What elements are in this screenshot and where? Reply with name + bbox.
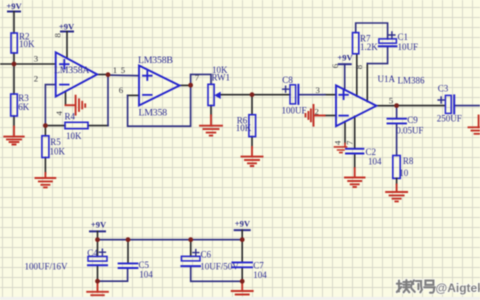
power +9V P1 (top-left) — [6, 1, 22, 12]
wire op-amp2 feedback loop — [128, 85, 191, 126]
ground under C2 — [345, 168, 365, 187]
resistor R6 10K — [236, 115, 256, 137]
resistor R5 10K — [42, 136, 66, 158]
svg-text:3: 3 — [34, 54, 39, 64]
wire +9V top rail — [98, 239, 243, 241]
svg-text:10K: 10K — [19, 39, 35, 49]
svg-text:LM358B: LM358B — [138, 55, 173, 66]
ground under C7 — [232, 281, 253, 294]
wire R6 to ground — [251, 137, 253, 147]
svg-text:C8: C8 — [282, 75, 293, 85]
op-amp U?B LM358B — [139, 66, 180, 106]
capacitor C7 104 — [232, 260, 267, 280]
wire LM386 pin 7 to C2 — [354, 116, 356, 148]
svg-text:LM386: LM386 — [398, 76, 426, 86]
resistor R2 10K — [11, 32, 35, 54]
wire op-amp2 output stub — [180, 84, 191, 86]
wire C3 to right edge — [456, 105, 480, 107]
wire op-amp1 output stub — [97, 74, 108, 76]
capacitor C2 104 — [346, 147, 382, 167]
svg-text:C2: C2 — [366, 147, 377, 157]
node C junction (wiper/R6/C8) — [250, 92, 255, 97]
resistor R4 10K (horizontal) — [65, 112, 89, 141]
wire R7 to LM386 pin 8 — [356, 54, 358, 96]
capacitor C5 104 — [119, 260, 154, 280]
svg-text:LM358: LM358 — [139, 108, 168, 119]
ground under R6 — [242, 147, 263, 166]
node D junction (LM386 out) — [394, 103, 399, 108]
capacitor C6 10UF/50V (polarized, vertical) — [181, 249, 239, 271]
wire C9 to R8 — [396, 124, 398, 156]
wire bottom ground rail left — [98, 269, 128, 281]
capacitor C9 0.05UF — [388, 115, 424, 136]
svg-text:5: 5 — [121, 65, 126, 75]
svg-text:3: 3 — [316, 85, 321, 95]
wire node B to R5 — [44, 126, 46, 136]
svg-text:8: 8 — [354, 64, 364, 69]
wire P1 to R2 — [13, 12, 15, 34]
svg-text:5: 5 — [389, 96, 394, 106]
wire node C to R6 — [251, 95, 253, 115]
svg-text:R5: R5 — [50, 137, 61, 147]
wire LM386 pin 2 stub — [325, 115, 336, 117]
svg-text:10K: 10K — [50, 147, 66, 157]
svg-text:7: 7 — [195, 72, 200, 82]
svg-text:104: 104 — [368, 157, 382, 167]
power +9V P3 (LM386 pin6) — [337, 53, 353, 65]
ground at LM386 pin 4 (small) — [335, 144, 347, 153]
ground under C4 — [87, 281, 108, 295]
ground at right edge (partial) — [469, 116, 480, 134]
svg-text:C9: C9 — [407, 115, 418, 125]
capacitor C4 100UF/16V (polarized, vertical) — [25, 248, 108, 271]
wire op-amp2 out to RW1 top — [191, 74, 211, 85]
svg-text:100UF: 100UF — [282, 106, 307, 116]
svg-text:100UF/16V: 100UF/16V — [25, 261, 69, 271]
svg-text:4: 4 — [332, 140, 342, 145]
capacitor C3 250UF (polarized, horizontal) — [437, 84, 462, 124]
svg-text:4: 4 — [54, 111, 64, 116]
wire P4 stem — [97, 231, 99, 239]
wire C8 to LM386 pin 3 — [325, 94, 336, 96]
watermark 搜狐号@Aigtek — [397, 280, 480, 295]
ground rail junction at C7 — [240, 279, 245, 284]
wire C4 to ground node — [97, 266, 99, 281]
ground under R3 — [4, 127, 23, 145]
ground under RW1 — [200, 115, 222, 135]
svg-text:U1A: U1A — [378, 74, 396, 84]
power +9V P5 (bottom rail right) — [235, 219, 251, 231]
wire rail to C6 — [190, 240, 192, 257]
rail junction at P4 — [95, 237, 100, 242]
svg-text:@Aigtek: @Aigtek — [436, 281, 480, 295]
wire C7 to ground node — [241, 267, 243, 281]
svg-text:+9V: +9V — [59, 22, 75, 32]
svg-text:+9V: +9V — [91, 219, 107, 229]
wire R3 to ground — [13, 116, 15, 127]
svg-text:10: 10 — [399, 168, 409, 178]
wire P2 to op-amp1 pin 8 — [66, 32, 68, 58]
wire node D to C9 — [396, 106, 398, 119]
svg-text:+9V: +9V — [337, 53, 353, 63]
power +9V P4 (bottom rail left) — [90, 219, 107, 231]
wire node A to R3 — [13, 64, 15, 94]
capacitor C8 100UF (polarized, horizontal) — [282, 75, 307, 116]
svg-text:0.05UF: 0.05UF — [396, 126, 423, 136]
wire P5 stem — [241, 230, 243, 240]
wire C8 right side — [299, 94, 325, 96]
resistor R7 1.2K — [353, 33, 379, 54]
wire node B to R4 — [45, 125, 65, 127]
wire P3 stem to LM386 pin6 — [344, 64, 346, 90]
svg-text:250UF: 250UF — [437, 114, 462, 124]
svg-text:1.2K: 1.2K — [360, 42, 378, 52]
power +9V P2 (op-amp1 pin8) — [59, 22, 75, 32]
svg-text:C6: C6 — [201, 249, 212, 259]
resistor R8 10 — [393, 156, 414, 179]
svg-text:104: 104 — [139, 270, 153, 280]
svg-text:LM358A: LM358A — [54, 65, 89, 76]
svg-text:R8: R8 — [403, 156, 414, 166]
capacitor C1 10UF (polarized, vertical) — [379, 32, 418, 52]
svg-text:+9V: +9V — [6, 1, 22, 11]
wire R5 to ground — [44, 158, 46, 174]
svg-text:C3: C3 — [438, 84, 449, 94]
wire C2 to ground — [354, 154, 356, 168]
rail junction at C5 — [126, 237, 131, 242]
wire node D to C3 — [397, 105, 446, 107]
node A junction (R2/R3/pin3) — [12, 62, 17, 67]
svg-text:C4: C4 — [87, 248, 98, 258]
rail junction at C6 — [188, 237, 193, 242]
resistor R3 6K — [11, 93, 30, 116]
wire C1 bottom to pin1 column — [367, 47, 387, 64]
svg-text:104: 104 — [253, 270, 267, 280]
svg-text:R4: R4 — [65, 112, 76, 122]
wire R2 to node A — [13, 53, 15, 64]
wire feedback column to R4 row — [107, 75, 109, 126]
svg-text:2: 2 — [34, 74, 38, 84]
ground under R5 — [36, 173, 56, 187]
wire op-amp1 pin2 feedback branch — [45, 85, 55, 126]
svg-text:10K: 10K — [236, 123, 252, 133]
svg-text:6K: 6K — [18, 102, 30, 112]
ground under R8 — [396, 178, 398, 184]
wire RW1 bottom to ground — [210, 106, 212, 116]
ground rail junction at C4 — [95, 279, 100, 284]
node junction op-amp1 output — [106, 72, 111, 77]
node B junction (R4/R5/pin2) — [43, 123, 48, 128]
svg-text:7: 7 — [345, 140, 355, 145]
op-amp U?A LM358A — [56, 52, 97, 96]
potentiometer RW1 10K — [208, 65, 230, 105]
wire LM386 pin 4 down — [344, 122, 346, 144]
svg-text:RW1: RW1 — [212, 72, 231, 82]
wire rail to C4 — [97, 240, 99, 257]
wire input row pin3 — [0, 63, 56, 65]
svg-text:+9V: +9V — [235, 219, 251, 229]
wire rail to C7 — [241, 240, 243, 262]
wire op-amp2 pin 6 stub — [128, 94, 139, 96]
wire op-amp1 out to op-amp2 pin5 — [108, 74, 139, 77]
wire RW1 wiper to C8 — [221, 94, 290, 96]
wire C1 to LM386 pin 1 — [366, 64, 368, 102]
svg-text:C7: C7 — [253, 260, 264, 270]
wire bottom ground rail right — [191, 267, 243, 281]
bottom edge strip — [0, 297, 480, 300]
wire R7 C1 top loop — [356, 23, 388, 39]
svg-text:6: 6 — [330, 63, 340, 68]
svg-text:10K: 10K — [66, 131, 82, 141]
ground at LM386 pin 2 (rotated left) — [306, 105, 325, 126]
ground at op-amp1 pin 4 (rotated right) — [66, 96, 86, 115]
op-amp U1A LM386 — [336, 85, 376, 126]
svg-text:C5: C5 — [139, 260, 150, 270]
wire R4 to feedback column — [88, 125, 108, 127]
node junction op-amp2 output — [188, 83, 193, 88]
wire rail to C5 — [127, 240, 129, 263]
rail junction at P5 — [240, 237, 245, 242]
svg-text:10UF: 10UF — [398, 42, 419, 52]
svg-text:1: 1 — [113, 65, 117, 75]
wire op-amp1 pin 4 stub — [65, 91, 67, 105]
svg-text:C1: C1 — [398, 32, 409, 42]
svg-text:8: 8 — [53, 33, 63, 38]
svg-text:2: 2 — [315, 106, 319, 116]
wire LM386 output stub — [376, 105, 396, 107]
svg-text:6: 6 — [119, 85, 124, 95]
